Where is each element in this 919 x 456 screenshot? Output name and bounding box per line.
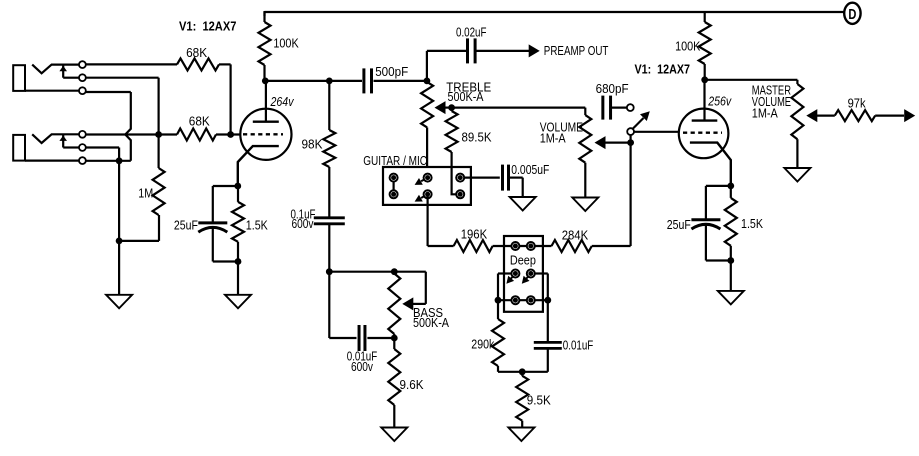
label BASS 500K-A	[413, 315, 449, 330]
capacitor 25uF (cathode bypass V1b)	[691, 220, 720, 229]
wire bass top rail	[329, 271, 426, 273]
resistor 98K (slope)	[323, 81, 335, 218]
arrow signal out	[904, 109, 915, 122]
label 0.01uF bass	[347, 348, 378, 363]
svg-text:0.02uF: 0.02uF	[456, 25, 487, 40]
jack J2 tip contact	[32, 134, 79, 143]
svg-text:9.5K: 9.5K	[527, 392, 551, 407]
tube V1a grid (dashed)	[243, 133, 283, 135]
label 9.5K	[527, 392, 551, 407]
ground master pot	[784, 168, 810, 182]
node bass pot bottom	[391, 335, 398, 342]
wire right-top to 0.005uF	[464, 177, 500, 179]
volume wiper arrow	[595, 136, 631, 149]
label 68K input1	[186, 45, 207, 60]
wire grid node to tube V1a	[216, 133, 241, 135]
ground cathode V1b	[718, 291, 744, 305]
svg-text:500K-A: 500K-A	[448, 89, 484, 104]
node 9.5K top	[519, 368, 526, 375]
jack J1 sleeve terminal	[25, 87, 86, 94]
svg-text:100K: 100K	[675, 39, 701, 54]
wire plate V1b to master pot	[705, 80, 798, 84]
switch S2 terminal mid left	[511, 270, 519, 278]
switch S2 lever right	[522, 274, 531, 284]
bright switch arm	[632, 111, 650, 129]
node grid junction	[155, 131, 162, 138]
tube V1b plate	[692, 80, 718, 121]
svg-text:600v: 600v	[292, 216, 314, 231]
svg-text:1.5K: 1.5K	[246, 218, 268, 233]
label 500pF	[375, 64, 408, 79]
wire cathode V1a to ground	[237, 262, 239, 295]
wire plate V1a to 500pF	[264, 80, 362, 82]
wire J1 tip to 68K	[86, 63, 178, 65]
svg-text:97k: 97k	[848, 95, 866, 110]
node deep right	[544, 297, 551, 304]
label BASS	[413, 305, 443, 320]
resistor 290k	[492, 300, 504, 372]
wire 290k to 9.5K node	[498, 371, 522, 373]
label 284K	[562, 227, 589, 242]
label 98K	[302, 137, 323, 152]
label 1.5K second	[741, 216, 763, 231]
svg-text:1M-A: 1M-A	[752, 105, 778, 120]
wire 0.01uF to 9.5K node	[522, 349, 548, 372]
wire J1 switch to grid node	[86, 78, 159, 135]
jack J1 switch terminal	[63, 74, 86, 81]
label 100K	[273, 36, 299, 51]
ground 9.5K	[508, 428, 534, 442]
svg-text:98K: 98K	[302, 137, 323, 152]
label 680pF	[596, 81, 629, 96]
svg-text:D: D	[848, 6, 856, 23]
svg-text:680pF: 680pF	[596, 81, 629, 96]
potentiometer BASS 500K-A	[388, 274, 400, 339]
switch S1 lever bottom	[415, 194, 428, 201]
jack J1 tip terminal	[79, 61, 86, 68]
wire 25uF-2 bottom	[706, 224, 731, 261]
jack J1 body (input 1)	[13, 65, 25, 91]
svg-text:9.6K: 9.6K	[400, 377, 424, 392]
label 1.5K first	[246, 218, 268, 233]
svg-text:1M-A: 1M-A	[540, 131, 566, 146]
wire J2 sleeve	[86, 160, 131, 162]
svg-text:500K-A: 500K-A	[413, 315, 449, 330]
tube V1b cathode	[690, 143, 731, 186]
label Deep	[510, 252, 536, 267]
label 1M	[138, 186, 153, 201]
switch S1 terminal left top	[390, 174, 398, 182]
tube V1a envelope	[240, 109, 291, 160]
switch S2 lever left	[506, 274, 515, 284]
jack J1 tip contact	[32, 65, 79, 74]
node plate V1a	[262, 78, 269, 85]
wire J2 switch down	[86, 148, 120, 161]
jack J2 switch arrow	[59, 134, 67, 147]
resistor 97k	[835, 110, 875, 121]
label 264v plate voltage	[270, 94, 295, 109]
wire 0.005uF to ground	[509, 178, 523, 197]
switch S1 terminal mid bottom	[424, 190, 432, 198]
potentiometer MASTER VOLUME 1M-A	[791, 84, 803, 168]
node 98K top	[326, 78, 333, 85]
potentiometer VOLUME 1M-A	[579, 108, 591, 198]
label TREBLE	[446, 79, 491, 94]
switch S1 terminal right bottom	[456, 190, 464, 198]
capacitor 0.005uF	[503, 165, 509, 191]
wire 68K-1 to grid node	[219, 64, 231, 134]
label VOLUME	[540, 119, 584, 134]
wire deep mid right out	[535, 274, 548, 301]
tube V1a plate	[253, 81, 279, 122]
resistor 284K	[535, 240, 592, 252]
wire ground rail to 1M	[119, 215, 159, 241]
label TREBLE 500K-A	[448, 89, 484, 104]
resistor 1.5K (cathode V1a)	[232, 186, 244, 262]
wire bass wiper	[402, 272, 426, 311]
label GUITAR / MIC	[363, 153, 427, 168]
tube V1b grid (dashed)	[683, 131, 722, 133]
capacitor 680pF (bright)	[603, 96, 611, 120]
node sleeve junction	[116, 157, 123, 164]
svg-text:89.5K: 89.5K	[462, 130, 492, 145]
label VOLUME 1M-A	[540, 131, 566, 146]
label 0.005uF	[511, 162, 549, 177]
wire 196K to deep switch	[493, 245, 512, 247]
svg-text:PREAMP OUT: PREAMP OUT	[544, 43, 609, 58]
node bass pot top	[391, 268, 398, 275]
jack J2 body (input 2)	[13, 135, 25, 161]
node ground rail junction	[116, 238, 123, 245]
wire top B+ rail	[265, 11, 845, 16]
potentiometer TREBLE 500K-A	[421, 82, 433, 167]
resistor 68K (input 2 grid stopper)	[177, 129, 216, 141]
switch S1 lever top	[415, 178, 428, 185]
label 0.01uF deep	[563, 338, 594, 353]
wire deep bottom row	[498, 299, 548, 301]
tube V1b envelope	[679, 109, 729, 159]
label 9.6K	[400, 377, 424, 392]
wire 500pF to treble node	[374, 80, 427, 82]
wire cathode V1b to 25uF	[706, 186, 731, 220]
label V1: 12AX7 (first triode)	[179, 19, 236, 34]
resistor 100K (plate load V1a)	[259, 12, 271, 81]
svg-text:264v: 264v	[270, 94, 295, 109]
label 196K	[461, 226, 488, 241]
wire J1 sleeve down with hop	[86, 92, 131, 161]
jack J2 switch terminal	[63, 144, 86, 151]
svg-text:V1: 12AX7: V1: 12AX7	[179, 19, 236, 34]
wire wiper down to 284K	[592, 143, 631, 246]
svg-text:25uF: 25uF	[174, 218, 198, 233]
resistor 1M (grid leak)	[153, 135, 165, 216]
node bass top left	[326, 268, 333, 275]
svg-text:600v: 600v	[351, 359, 373, 374]
wire 680pF to switch	[611, 106, 627, 108]
node cathode V1a bottom	[235, 258, 242, 265]
label 256v plate voltage	[707, 94, 732, 109]
label 600v first	[292, 216, 314, 231]
capacitor 0.1uF 600v	[314, 218, 345, 224]
switch S1 terminal left bottom	[390, 190, 398, 198]
switch S1 left pair link	[393, 178, 395, 195]
capacitor 0.01uF (deep)	[534, 300, 562, 348]
svg-text:1M: 1M	[138, 186, 153, 201]
svg-text:290k: 290k	[471, 336, 494, 351]
svg-text:V1: 12AX7: V1: 12AX7	[635, 62, 691, 77]
switch S2 terminal top right	[527, 242, 535, 250]
capacitor 0.02uF (preamp out coupling)	[468, 38, 476, 63]
ground volume pot	[572, 198, 598, 212]
resistor 9.6K	[388, 338, 400, 428]
node treble top	[424, 78, 431, 85]
terminal D (B+ supply)	[844, 3, 860, 24]
capacitor 500pF	[364, 68, 372, 93]
tube V1a cathode	[238, 146, 279, 186]
switch S1 terminal mid top	[424, 174, 432, 182]
ground 0.005uF	[510, 197, 536, 211]
svg-text:284K: 284K	[562, 227, 589, 242]
switch box Deep	[504, 236, 543, 312]
switch S2 terminal top left	[511, 242, 519, 250]
svg-text:100K: 100K	[273, 36, 299, 51]
svg-text:68K: 68K	[189, 114, 210, 129]
switch S2 terminal bottom left	[511, 296, 519, 304]
wire cathode V1b to ground	[730, 261, 732, 291]
label 68K input2	[189, 114, 210, 129]
svg-text:1.5K: 1.5K	[741, 216, 763, 231]
node deep left	[495, 297, 502, 304]
jack J2 sleeve terminal	[25, 157, 86, 164]
wire deep mid left out	[498, 274, 512, 301]
switch S1 terminal right top	[456, 174, 464, 182]
treble wiper arrow	[435, 101, 452, 114]
wire treble node up to 0.02uF	[427, 51, 466, 81]
node cathode V1b bottom	[727, 257, 734, 264]
switch S2 terminal mid right	[527, 270, 535, 278]
ground cathode V1a	[225, 295, 251, 309]
ground input jacks	[106, 295, 132, 309]
jack J2 tip terminal	[79, 131, 86, 138]
arrow preamp out	[529, 44, 540, 57]
resistor 68K (input 1 grid stopper)	[177, 58, 219, 70]
label 600v bass	[351, 359, 373, 374]
master wiper arrow	[806, 109, 835, 122]
wire J2 tip to 68K	[86, 133, 178, 135]
resistor 9.5K	[516, 372, 528, 428]
ground 9.6K	[381, 428, 407, 442]
switch S2 terminal bottom right	[527, 296, 535, 304]
node cathode V1b top	[727, 183, 734, 190]
label 25uF first	[174, 218, 198, 233]
label 290k	[471, 336, 494, 351]
label MASTER	[752, 82, 791, 97]
node grid V1a	[227, 131, 234, 138]
svg-text:25uF: 25uF	[667, 217, 691, 232]
node volume wiper	[627, 139, 634, 146]
jack J1 switch arrow	[59, 65, 67, 78]
wire deep top pair	[512, 245, 535, 247]
svg-text:256v: 256v	[707, 94, 732, 109]
wire 0.02uF to output arrow	[477, 50, 530, 52]
label V1: 12AX7 second triode	[635, 62, 691, 77]
label 97k	[848, 95, 866, 110]
wire treble wiper to volume	[452, 106, 586, 108]
wire bass bottom left rail	[329, 272, 356, 338]
resistor 89.5K	[446, 108, 458, 195]
wire 0.1uF to bass node	[328, 224, 330, 272]
label 89.5K	[462, 130, 492, 145]
switch box GUITAR/MIC	[383, 167, 471, 205]
terminal bright switch top	[627, 104, 634, 111]
label 100K second	[675, 39, 701, 54]
svg-text:0.01uF: 0.01uF	[563, 338, 594, 353]
node treble wiper	[448, 104, 455, 111]
svg-text:Deep: Deep	[510, 252, 536, 267]
resistor 196K	[454, 240, 493, 252]
node plate V1b	[701, 76, 708, 83]
label 0.1uF	[291, 206, 316, 221]
wire switch to wiper node	[629, 135, 631, 143]
terminal bright switch bottom	[627, 128, 634, 135]
wire sleeve to ground rail	[118, 161, 120, 241]
label PREAMP OUT	[544, 43, 609, 58]
wire switch to V1b grid	[634, 131, 679, 133]
wire 0.01uF to bass bottom	[367, 337, 394, 339]
capacitor 0.01uF 600v (bass)	[359, 325, 365, 351]
resistor 1.5K (cathode V1b)	[725, 186, 737, 261]
svg-text:GUITAR / MIC: GUITAR / MIC	[363, 153, 427, 168]
svg-text:196K: 196K	[461, 226, 488, 241]
svg-text:0.005uF: 0.005uF	[511, 162, 549, 177]
resistor 100K (plate load V1b)	[699, 12, 711, 80]
wire 97k to output	[875, 114, 904, 116]
node cathode V1a top	[234, 183, 241, 190]
svg-text:68K: 68K	[186, 45, 207, 60]
label MASTER VOLUME	[752, 94, 791, 109]
wire cathode to 25uF	[213, 186, 238, 223]
wire sleeve node to ground	[118, 241, 120, 295]
label MASTER 1M-A	[752, 105, 778, 120]
capacitor 25uF (cathode bypass V1a)	[198, 223, 227, 232]
wire 25uF bottom	[213, 227, 238, 262]
label 25uF second	[667, 217, 691, 232]
svg-text:500pF: 500pF	[375, 64, 408, 79]
label 0.02uF	[456, 25, 487, 40]
wire mid-bottom to 196K	[428, 194, 454, 246]
